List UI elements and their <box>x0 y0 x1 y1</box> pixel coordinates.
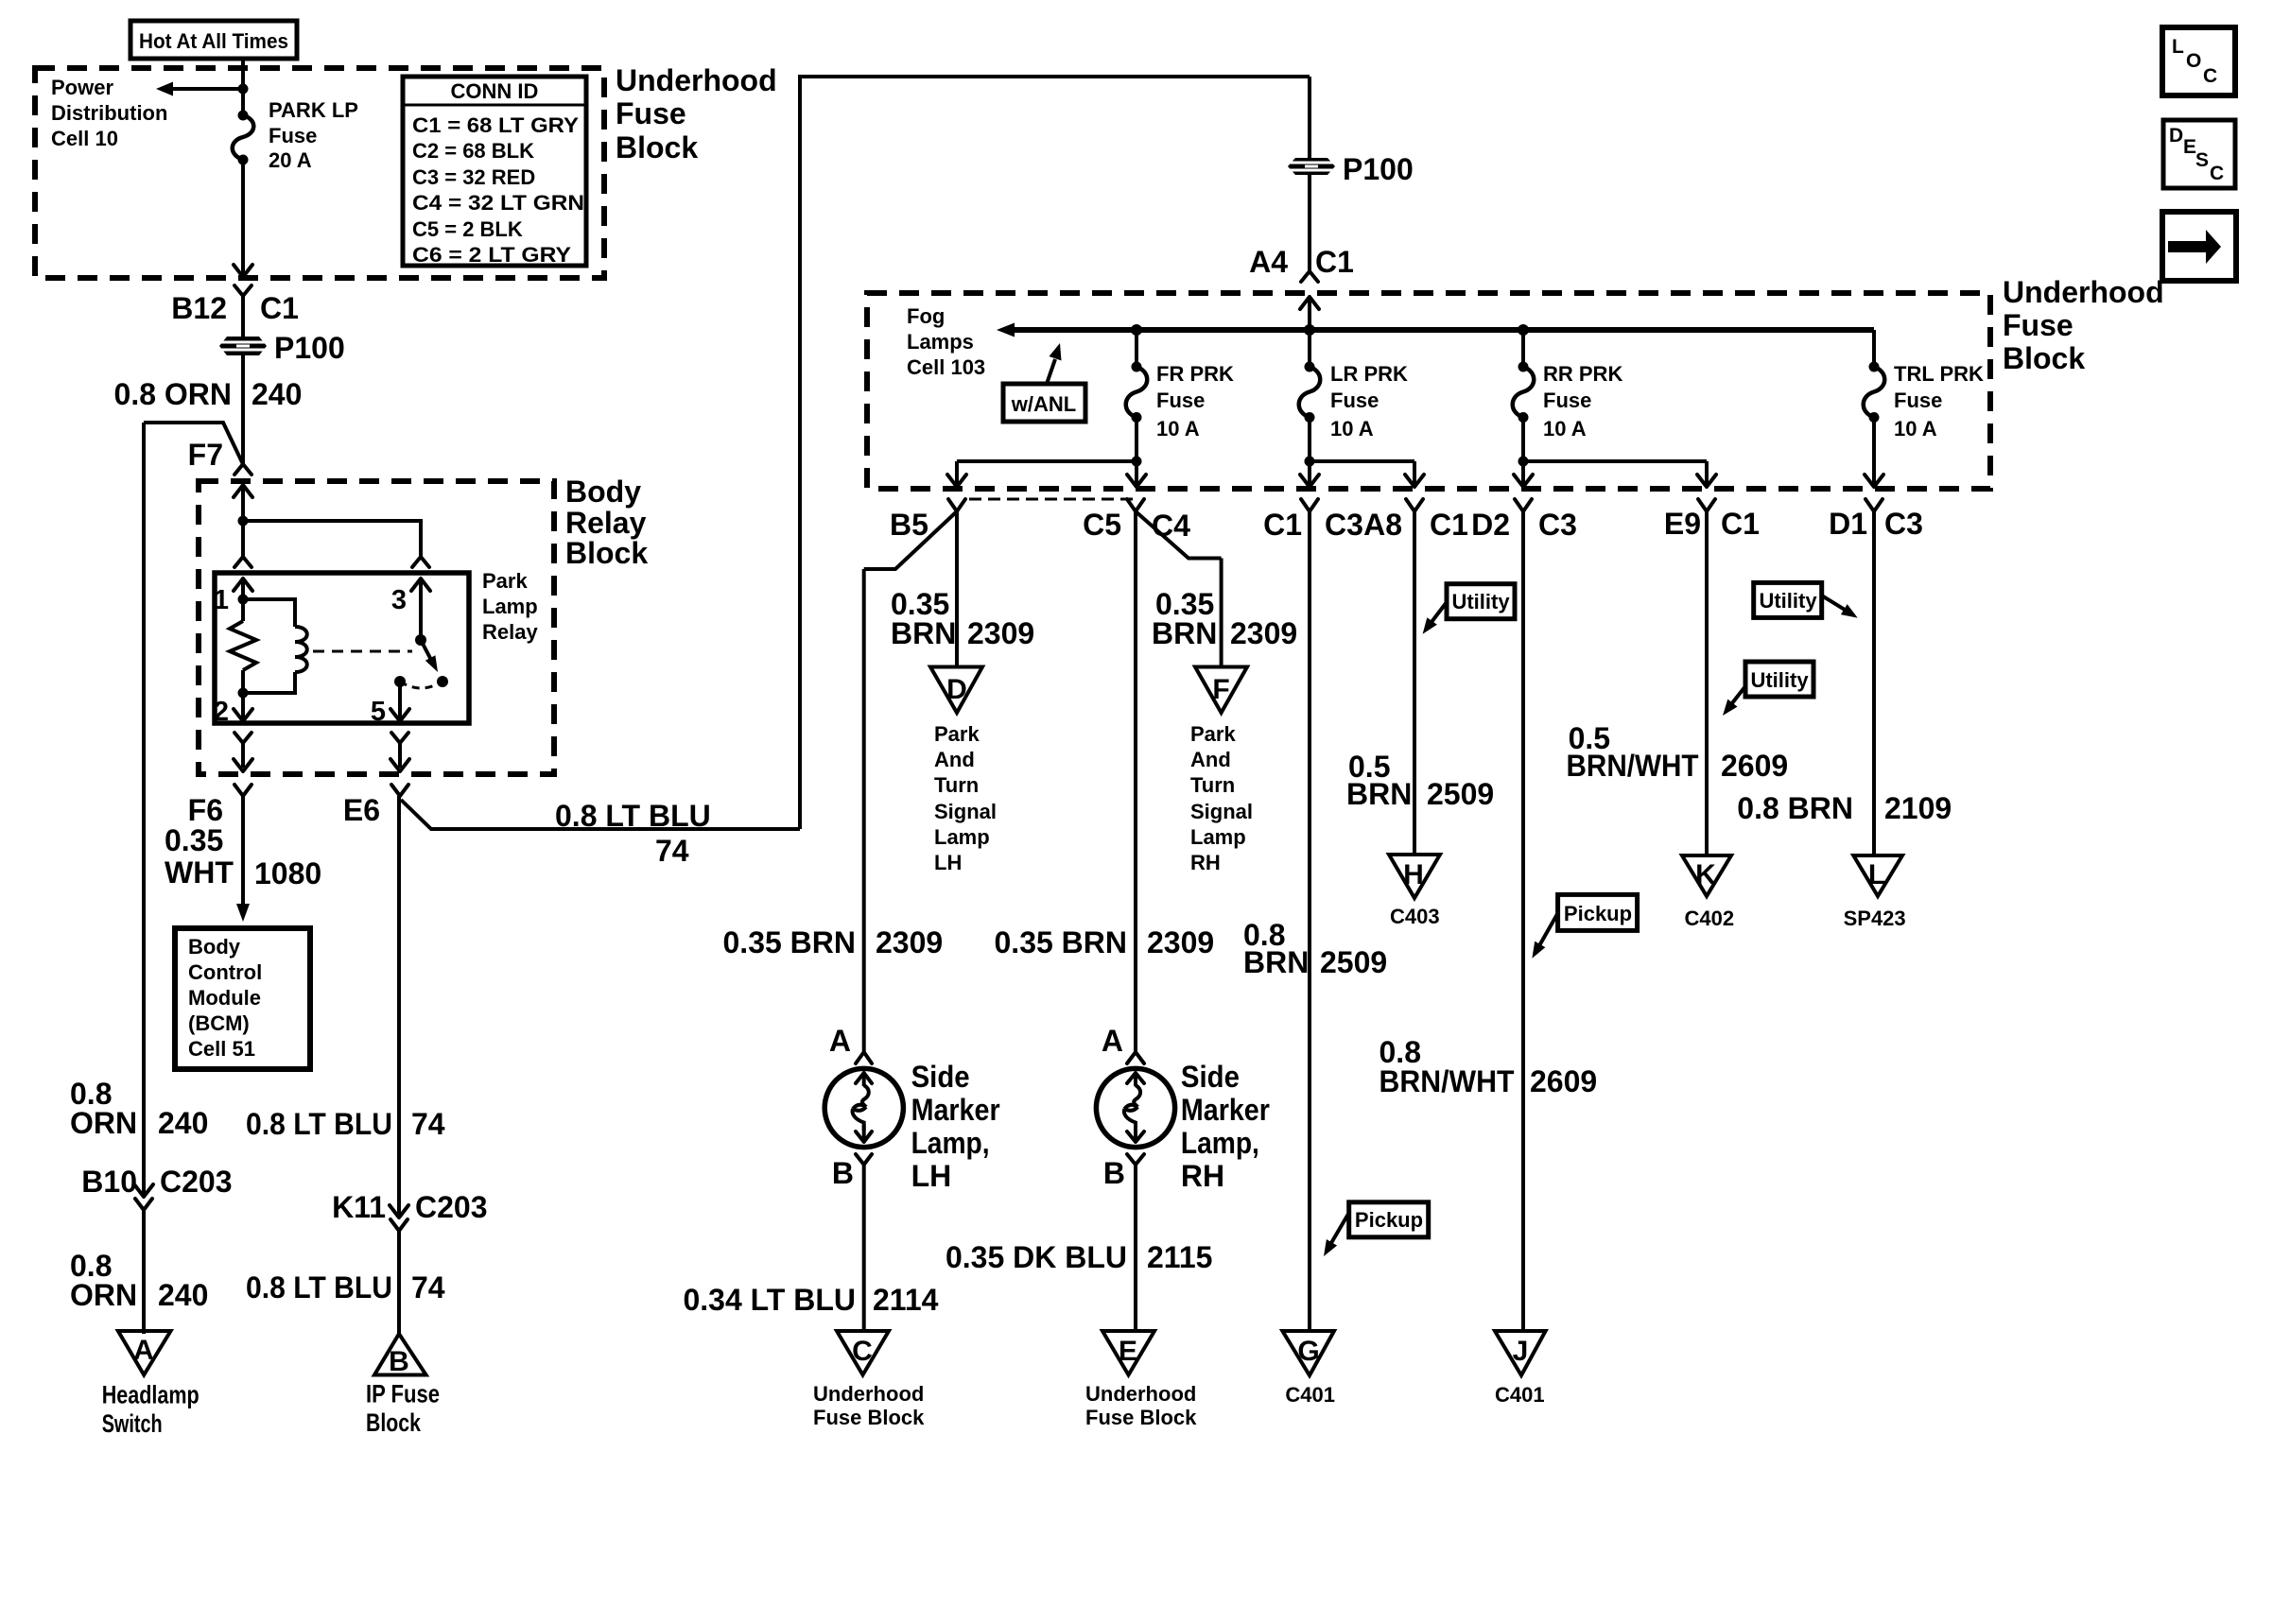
svg-text:2115: 2115 <box>1147 1240 1212 1274</box>
label box: Pickup (G column) with arrow <box>1324 1202 1429 1256</box>
text: Park Lamp Relay <box>482 569 538 644</box>
terminal: E9 | C1 <box>1664 499 1760 541</box>
svg-text:Fuse Block: Fuse Block <box>1085 1406 1197 1429</box>
svg-text:Fuse: Fuse <box>616 96 686 130</box>
svg-text:BRN/WHT: BRN/WHT <box>1567 749 1699 783</box>
label box: w/ANL with arrow <box>1003 343 1085 422</box>
wire: C5 to RH marker lamp <box>1134 511 1137 1052</box>
connector: B10 | C203 <box>81 1165 232 1210</box>
svg-text:RH: RH <box>1181 1159 1224 1193</box>
wire: branch arrow to Power Distribution (left) <box>156 82 243 96</box>
dashed box: Body Relay Block <box>199 481 554 774</box>
text: Underhood Fuse Block (left section label) <box>616 63 777 164</box>
svg-text:Lamp: Lamp <box>1190 825 1246 849</box>
wire: RR PRK output to D2 and E9 <box>1514 418 1716 488</box>
svg-text:C1 = 68 LT GRY: C1 = 68 LT GRY <box>412 113 579 137</box>
svg-text:Fuse: Fuse <box>1156 389 1205 412</box>
fuse: PARK LP Fuse 20 A <box>233 111 254 165</box>
svg-text:A: A <box>133 1335 154 1366</box>
text: 0.8 / ORN | 240 (lower) <box>70 1249 208 1312</box>
svg-text:Marker: Marker <box>911 1093 1000 1127</box>
svg-text:A: A <box>829 1024 851 1058</box>
text: 0.8 LT BLU | 74 (upper) <box>246 1107 445 1141</box>
svg-text:F6: F6 <box>188 793 223 827</box>
svg-text:3: 3 <box>391 585 407 615</box>
svg-text:2509: 2509 <box>1320 945 1387 979</box>
svg-text:C5: C5 <box>1083 508 1121 542</box>
svg-text:Marker: Marker <box>1181 1093 1270 1127</box>
svg-text:P100: P100 <box>274 331 345 365</box>
svg-text:C203: C203 <box>160 1165 233 1199</box>
resistor (relay) <box>230 599 256 693</box>
svg-text:L: L <box>1868 859 1885 890</box>
terminal: below RH marker lamp (B) <box>1103 1154 1144 1190</box>
svg-text:Turn: Turn <box>934 773 979 797</box>
text: Underhood Fuse Block (right section label) <box>2003 275 2164 375</box>
svg-text:ORN: ORN <box>70 1278 137 1312</box>
wire: branch to pin 3 <box>243 521 421 557</box>
terminal: D2 | C3 <box>1471 499 1577 542</box>
pin 5 wire and arrow <box>371 682 409 727</box>
svg-text:A4: A4 <box>1249 245 1288 279</box>
text: 0.8 BRN | 2109 (L column) <box>1737 791 1952 825</box>
pin 3 arrow and wire <box>391 579 430 640</box>
text: FR PRK Fuse 10 A <box>1156 362 1234 441</box>
svg-text:2609: 2609 <box>1530 1064 1597 1098</box>
wire: P100 down to F7 <box>241 355 245 464</box>
svg-text:74: 74 <box>655 834 689 868</box>
svg-text:Lamp: Lamp <box>482 595 538 618</box>
text: 0.35 BRN | 2309 (D column) <box>891 587 1034 650</box>
svg-text:10 A: 10 A <box>1543 417 1587 441</box>
triangle L: SP423 <box>1844 855 1906 930</box>
triangle K: C402 <box>1682 855 1734 930</box>
wire: E9 down to triangle K <box>1705 511 1709 856</box>
svg-text:J: J <box>1513 1336 1529 1367</box>
svg-text:Fuse: Fuse <box>2003 308 2073 342</box>
svg-text:Signal: Signal <box>934 800 997 823</box>
pin 1 arrow and wire <box>214 579 252 615</box>
svg-text:BRN/WHT: BRN/WHT <box>1379 1064 1515 1098</box>
svg-text:D2: D2 <box>1471 508 1510 542</box>
svg-text:0.8 ORN: 0.8 ORN <box>114 377 232 411</box>
svg-text:LH: LH <box>911 1159 952 1193</box>
wire: fuse to box edge with down arrow <box>234 160 252 277</box>
icon box: next-page arrow <box>2162 212 2236 281</box>
svg-text:RR PRK: RR PRK <box>1543 362 1622 386</box>
svg-text:0.8 LT BLU: 0.8 LT BLU <box>555 799 711 833</box>
pin 2 wire and arrow <box>214 693 252 727</box>
svg-text:Pickup: Pickup <box>1564 902 1632 925</box>
text: 0.35 BRN | 2309 (RH marker) <box>995 925 1215 959</box>
wire: vertical up to top run <box>800 77 1310 829</box>
fuse: TRL PRK Fuse 10 A <box>1864 330 1885 423</box>
CONN ID table <box>403 77 586 267</box>
thin dashed line between B5 and C5 <box>969 498 1134 501</box>
text: PARK LP Fuse 20 A <box>269 98 358 172</box>
text: 0.34 LT BLU | 2114 <box>683 1283 938 1317</box>
svg-text:Turn: Turn <box>1190 773 1235 797</box>
terminal: F6 below relay block <box>234 785 252 796</box>
svg-text:G: G <box>1297 1336 1319 1367</box>
svg-text:Signal: Signal <box>1190 800 1253 823</box>
text: Park And Turn Signal Lamp RH <box>1190 722 1253 874</box>
svg-text:C: C <box>2210 163 2224 184</box>
svg-text:S: S <box>2195 149 2209 171</box>
terminal: below relay pin 2 <box>234 733 252 771</box>
text: Side Marker Lamp, RH <box>1181 1060 1270 1193</box>
svg-text:B: B <box>832 1156 854 1190</box>
svg-text:74: 74 <box>411 1270 445 1304</box>
svg-text:Pickup: Pickup <box>1355 1208 1423 1232</box>
text: 0.35 BRN | 2309 (F column) <box>1152 587 1297 650</box>
svg-text:Park: Park <box>934 722 980 746</box>
wire: down to triangle F <box>1220 559 1223 669</box>
label box: Hot At All Times <box>130 21 297 59</box>
text: 0.5 / BRN | 2509 (H column) <box>1346 750 1494 811</box>
svg-text:FR PRK: FR PRK <box>1156 362 1234 386</box>
terminal: D1 | C3 <box>1829 499 1923 541</box>
terminal: above RH marker lamp <box>1127 1052 1144 1063</box>
svg-text:LH: LH <box>934 851 962 874</box>
wire: LR PRK output to C1/C3 and A8 <box>1300 418 1424 488</box>
svg-text:Underhood: Underhood <box>2003 275 2164 309</box>
terminal: C5 <box>1127 499 1144 511</box>
text: Side Marker Lamp, LH <box>911 1060 1000 1193</box>
wire: D2 down to triangle J <box>1521 511 1525 1332</box>
text: 0.8 / BRN | 2509 (G column) <box>1243 918 1387 979</box>
svg-text:2: 2 <box>214 697 229 727</box>
svg-text:C1: C1 <box>1315 245 1354 279</box>
label box: Utility (L column) with arrow <box>1754 582 1858 617</box>
triangle A: Headlamp Switch <box>102 1331 200 1438</box>
svg-text:C401: C401 <box>1285 1383 1335 1407</box>
svg-text:Block: Block <box>565 536 648 570</box>
svg-text:Control: Control <box>188 960 262 984</box>
wire: B5 to triangle D <box>955 511 959 667</box>
svg-text:2309: 2309 <box>1147 925 1214 959</box>
wire: RH marker to triangle E <box>1134 1165 1137 1332</box>
svg-text:Block: Block <box>366 1408 422 1437</box>
svg-text:2509: 2509 <box>1427 777 1494 811</box>
svg-text:Underhood: Underhood <box>616 63 777 97</box>
node: junction to relay coil and contact <box>238 516 249 527</box>
terminal: below relay pin 5 <box>390 733 409 771</box>
text: Fog Lamps Cell 103 <box>907 304 985 379</box>
svg-text:Park: Park <box>482 569 528 593</box>
svg-text:C203: C203 <box>415 1190 488 1224</box>
wire: fuse block bus with left arrow to fog lamps <box>997 323 1874 337</box>
fuse: RR PRK Fuse 10 A <box>1513 330 1535 423</box>
fuse: LR PRK Fuse 10 A <box>1299 330 1321 423</box>
node: pin1 coil-top junction <box>238 595 249 605</box>
svg-text:C3: C3 <box>1884 507 1923 541</box>
svg-text:B: B <box>389 1346 409 1377</box>
wire: from Hot At All Times down to fuse <box>241 59 245 115</box>
svg-text:L: L <box>2172 36 2184 58</box>
svg-text:E: E <box>2183 136 2196 158</box>
switch: relay contact arm <box>394 634 448 688</box>
terminal: B5 <box>948 499 965 511</box>
svg-text:C403: C403 <box>1390 905 1440 928</box>
svg-text:Underhood: Underhood <box>1085 1382 1196 1406</box>
wire: A8 down to triangle H <box>1413 511 1416 855</box>
connector: K11 | C203 <box>332 1190 487 1231</box>
svg-text:PARK LP: PARK LP <box>269 98 358 122</box>
wire: FR PRK output to B5 and C5 <box>947 418 1146 488</box>
triangle F: Park And Turn Signal Lamp RH <box>1195 667 1247 714</box>
svg-text:2109: 2109 <box>1884 791 1952 825</box>
svg-text:BRN: BRN <box>891 616 956 650</box>
svg-text:240: 240 <box>158 1278 208 1312</box>
terminal: above relay pin 1 <box>234 557 252 567</box>
svg-text:Side: Side <box>1181 1060 1240 1094</box>
node: bus junction dots <box>1131 324 1529 336</box>
text: A4 | C1 <box>1249 245 1354 279</box>
svg-text:Block: Block <box>2003 341 2085 375</box>
lamp: Side Marker Lamp LH <box>824 1068 903 1147</box>
svg-text:2609: 2609 <box>1721 749 1788 783</box>
svg-text:Fuse: Fuse <box>1330 389 1379 412</box>
triangle H: C403 <box>1389 855 1440 928</box>
text: Power Distribution Cell 10 <box>51 76 167 150</box>
triangle J: C401 <box>1495 1331 1546 1407</box>
svg-text:B10: B10 <box>81 1165 137 1199</box>
wire: K11 to IP fuse block triangle <box>397 1231 401 1334</box>
svg-text:C2 = 68 BLK: C2 = 68 BLK <box>412 139 534 163</box>
svg-text:C4 = 32 LT GRN: C4 = 32 LT GRN <box>412 191 584 215</box>
svg-text:10 A: 10 A <box>1156 417 1200 441</box>
svg-text:Fuse: Fuse <box>1894 389 1942 412</box>
wire: LH marker column down to lamp <box>862 569 866 1052</box>
svg-text:(BCM): (BCM) <box>188 1011 250 1035</box>
svg-text:C1: C1 <box>1430 508 1468 542</box>
svg-text:C402: C402 <box>1685 907 1735 930</box>
dashed link: coil to switch <box>313 650 412 653</box>
svg-text:H: H <box>1403 859 1424 890</box>
svg-text:B: B <box>1103 1156 1125 1190</box>
svg-text:Body: Body <box>565 475 641 509</box>
svg-text:ORN: ORN <box>70 1106 137 1140</box>
svg-text:C: C <box>2203 65 2217 87</box>
svg-text:0.35 BRN: 0.35 BRN <box>723 925 857 959</box>
svg-text:C3: C3 <box>1538 508 1577 542</box>
svg-text:0.34 LT BLU: 0.34 LT BLU <box>683 1283 856 1317</box>
svg-text:C1: C1 <box>260 291 299 325</box>
wire: entry arrow into relay block <box>234 485 252 521</box>
svg-text:Fog: Fog <box>907 304 945 328</box>
svg-text:10 A: 10 A <box>1894 417 1937 441</box>
svg-text:F7: F7 <box>188 438 223 472</box>
svg-text:Lamps: Lamps <box>907 330 974 354</box>
node: junction dot on feed <box>238 84 249 95</box>
triangle E: Underhood Fuse Block <box>1085 1331 1197 1429</box>
text: 0.35 BRN | 2309 (LH marker) <box>723 925 944 959</box>
svg-text:B12: B12 <box>171 291 227 325</box>
svg-text:CONN ID: CONN ID <box>451 79 539 103</box>
svg-text:BRN: BRN <box>1152 616 1217 650</box>
svg-text:P100: P100 <box>1343 152 1414 186</box>
svg-text:Utility: Utility <box>1451 590 1510 613</box>
svg-text:240: 240 <box>252 377 302 411</box>
svg-text:B5: B5 <box>890 508 928 542</box>
terminal: A4/C1 entering fuse block <box>1301 271 1318 282</box>
terminal: F7 entering Body Relay Block <box>234 464 252 475</box>
connector: P100 inline symbol (top feed) <box>1288 158 1335 175</box>
svg-text:Utility: Utility <box>1759 589 1817 613</box>
svg-text:And: And <box>934 748 975 771</box>
svg-text:0.35: 0.35 <box>165 823 223 857</box>
fuse: FR PRK Fuse 10 A <box>1126 330 1148 423</box>
svg-text:240: 240 <box>158 1106 208 1140</box>
svg-text:BRN: BRN <box>1346 777 1412 811</box>
svg-text:10 A: 10 A <box>1330 417 1374 441</box>
text: LR PRK Fuse 10 A <box>1330 362 1408 441</box>
svg-text:Utility: Utility <box>1750 668 1809 692</box>
connector: P100 inline symbol <box>219 337 267 355</box>
svg-text:1080: 1080 <box>254 856 321 890</box>
text: TRL PRK Fuse 10 A <box>1894 362 1984 441</box>
text: Park And Turn Signal Lamp LH <box>934 722 997 874</box>
wire: top feed down to A4 <box>1308 77 1311 271</box>
svg-text:Fuse: Fuse <box>1543 389 1591 412</box>
wire: D1 down to triangle L <box>1872 511 1876 856</box>
text: 0.5 / BRN/WHT | 2609 (K column) <box>1567 721 1789 783</box>
lamp: Side Marker Lamp RH <box>1096 1068 1174 1147</box>
text: RR PRK Fuse 10 A <box>1543 362 1622 441</box>
node: pin2 coil-bottom junction <box>238 688 249 699</box>
wire: B12 to P100 <box>241 296 245 337</box>
text: 0.8 LT BLU / 74 (horizontal run) <box>555 799 711 868</box>
svg-text:Fuse Block: Fuse Block <box>813 1406 925 1429</box>
svg-text:C1: C1 <box>1263 508 1302 542</box>
text: 0.35 DK BLU | 2115 <box>946 1240 1212 1274</box>
svg-text:C4: C4 <box>1152 509 1190 543</box>
svg-text:Cell 103: Cell 103 <box>907 355 985 379</box>
dashed box: Power Distribution (Underhood Fuse Block) <box>35 68 604 278</box>
dashed box: Underhood Fuse Block <box>867 293 1990 489</box>
text: Body Relay Block <box>565 475 648 570</box>
svg-text:RH: RH <box>1190 851 1221 874</box>
svg-text:1: 1 <box>214 585 229 615</box>
box: Body Control Module <box>175 928 310 1069</box>
svg-text:Relay: Relay <box>565 506 647 540</box>
svg-text:D: D <box>2169 125 2183 147</box>
wire: B10 to headlamp switch triangle <box>142 1210 146 1334</box>
svg-text:And: And <box>1190 748 1231 771</box>
svg-text:0.8 LT BLU: 0.8 LT BLU <box>246 1107 392 1141</box>
svg-text:E6: E6 <box>343 793 380 827</box>
triangle D: Park And Turn Signal Lamp LH <box>930 667 982 714</box>
label box: Utility (H column) with arrow <box>1423 584 1515 634</box>
svg-text:5: 5 <box>371 697 386 727</box>
wire: LH marker to triangle C <box>862 1165 866 1332</box>
text: 0.8 LT BLU | 74 (lower) <box>246 1270 445 1304</box>
terminal: A8 | C1 <box>1363 499 1468 542</box>
svg-text:2309: 2309 <box>967 616 1034 650</box>
terminal: B12/C1 connector chevron <box>234 285 252 296</box>
wire: E6 down to K11 <box>397 796 401 1218</box>
svg-text:C5 = 2 BLK: C5 = 2 BLK <box>412 217 523 241</box>
wire: down to pin 1 <box>241 521 245 557</box>
label box: Utility (K column) with arrow <box>1723 662 1813 716</box>
text: B12 | C1 <box>171 291 299 325</box>
svg-text:Relay: Relay <box>482 620 538 644</box>
terminal: below LH marker lamp (B) <box>832 1154 872 1190</box>
svg-text:0.35 DK BLU: 0.35 DK BLU <box>946 1240 1127 1274</box>
svg-text:2309: 2309 <box>876 925 943 959</box>
svg-text:E: E <box>1119 1336 1137 1367</box>
svg-text:A8: A8 <box>1363 508 1402 542</box>
svg-text:Lamp,: Lamp, <box>911 1126 990 1160</box>
wire: E6 split diagonal to horizontal run <box>401 800 800 829</box>
triangle C: Underhood Fuse Block <box>813 1331 925 1429</box>
svg-text:C6 = 2 LT GRY: C6 = 2 LT GRY <box>412 243 571 267</box>
svg-text:WHT: WHT <box>165 855 234 890</box>
terminal: above relay pin 3 <box>412 557 429 567</box>
svg-text:Lamp,: Lamp, <box>1181 1126 1259 1160</box>
text: 0.35 WHT | 1080 <box>165 823 321 890</box>
wire: C1/C3 down to triangle G <box>1308 511 1311 1332</box>
svg-text:74: 74 <box>411 1107 445 1141</box>
svg-text:TRL PRK: TRL PRK <box>1894 362 1984 386</box>
svg-text:2309: 2309 <box>1230 616 1297 650</box>
text: 0.8 / ORN | 240 (upper) <box>70 1077 208 1140</box>
svg-text:Cell 10: Cell 10 <box>51 127 118 150</box>
wire: headlamp switch column <box>142 423 146 1197</box>
svg-text:Module: Module <box>188 986 261 1010</box>
icon box: DESC <box>2163 120 2235 188</box>
svg-text:Hot At All Times: Hot At All Times <box>139 29 288 53</box>
coil (relay) <box>243 599 307 693</box>
svg-text:Lamp: Lamp <box>934 825 990 849</box>
svg-text:E9: E9 <box>1664 507 1701 541</box>
svg-text:Switch: Switch <box>102 1409 163 1438</box>
svg-text:A: A <box>1102 1024 1123 1058</box>
icon box: LOC <box>2162 27 2235 95</box>
svg-text:Side: Side <box>911 1060 970 1094</box>
text: 0.8 / BRN/WHT | 2609 (J column) <box>1379 1035 1598 1098</box>
svg-text:Body: Body <box>188 935 241 959</box>
svg-text:Headlamp: Headlamp <box>102 1381 200 1409</box>
triangle B: IP Fuse Block <box>366 1334 440 1437</box>
svg-text:Park: Park <box>1190 722 1236 746</box>
svg-text:2114: 2114 <box>873 1283 939 1317</box>
svg-text:Distribution: Distribution <box>51 101 167 125</box>
svg-text:Block: Block <box>616 130 698 164</box>
svg-text:Underhood: Underhood <box>813 1382 924 1406</box>
svg-text:0.8 LT BLU: 0.8 LT BLU <box>246 1270 392 1304</box>
svg-text:C401: C401 <box>1495 1383 1545 1407</box>
svg-text:0.35 BRN: 0.35 BRN <box>995 925 1128 959</box>
wire: entry arrow into fuse block <box>1300 297 1319 330</box>
wire: F6 to BCM with arrow <box>236 796 250 922</box>
wire: C4 diagonal to RH park/turn column <box>1136 511 1222 559</box>
svg-text:O: O <box>2186 50 2201 72</box>
terminal: E6 below relay block <box>391 785 408 796</box>
svg-text:LR PRK: LR PRK <box>1330 362 1408 386</box>
wire: branch to headlamp switch column <box>144 423 243 463</box>
svg-text:C3 = 32 RED: C3 = 32 RED <box>412 165 535 189</box>
svg-text:Power: Power <box>51 76 113 99</box>
text: 0.8 ORN | 240 <box>114 377 303 411</box>
svg-text:w/ANL: w/ANL <box>1011 392 1076 416</box>
wire: B5 diagonal to LH marker column <box>864 511 957 569</box>
svg-text:D: D <box>946 674 967 705</box>
svg-text:C: C <box>852 1336 873 1367</box>
svg-text:K: K <box>1695 859 1716 890</box>
svg-text:0.8 BRN: 0.8 BRN <box>1737 791 1853 825</box>
